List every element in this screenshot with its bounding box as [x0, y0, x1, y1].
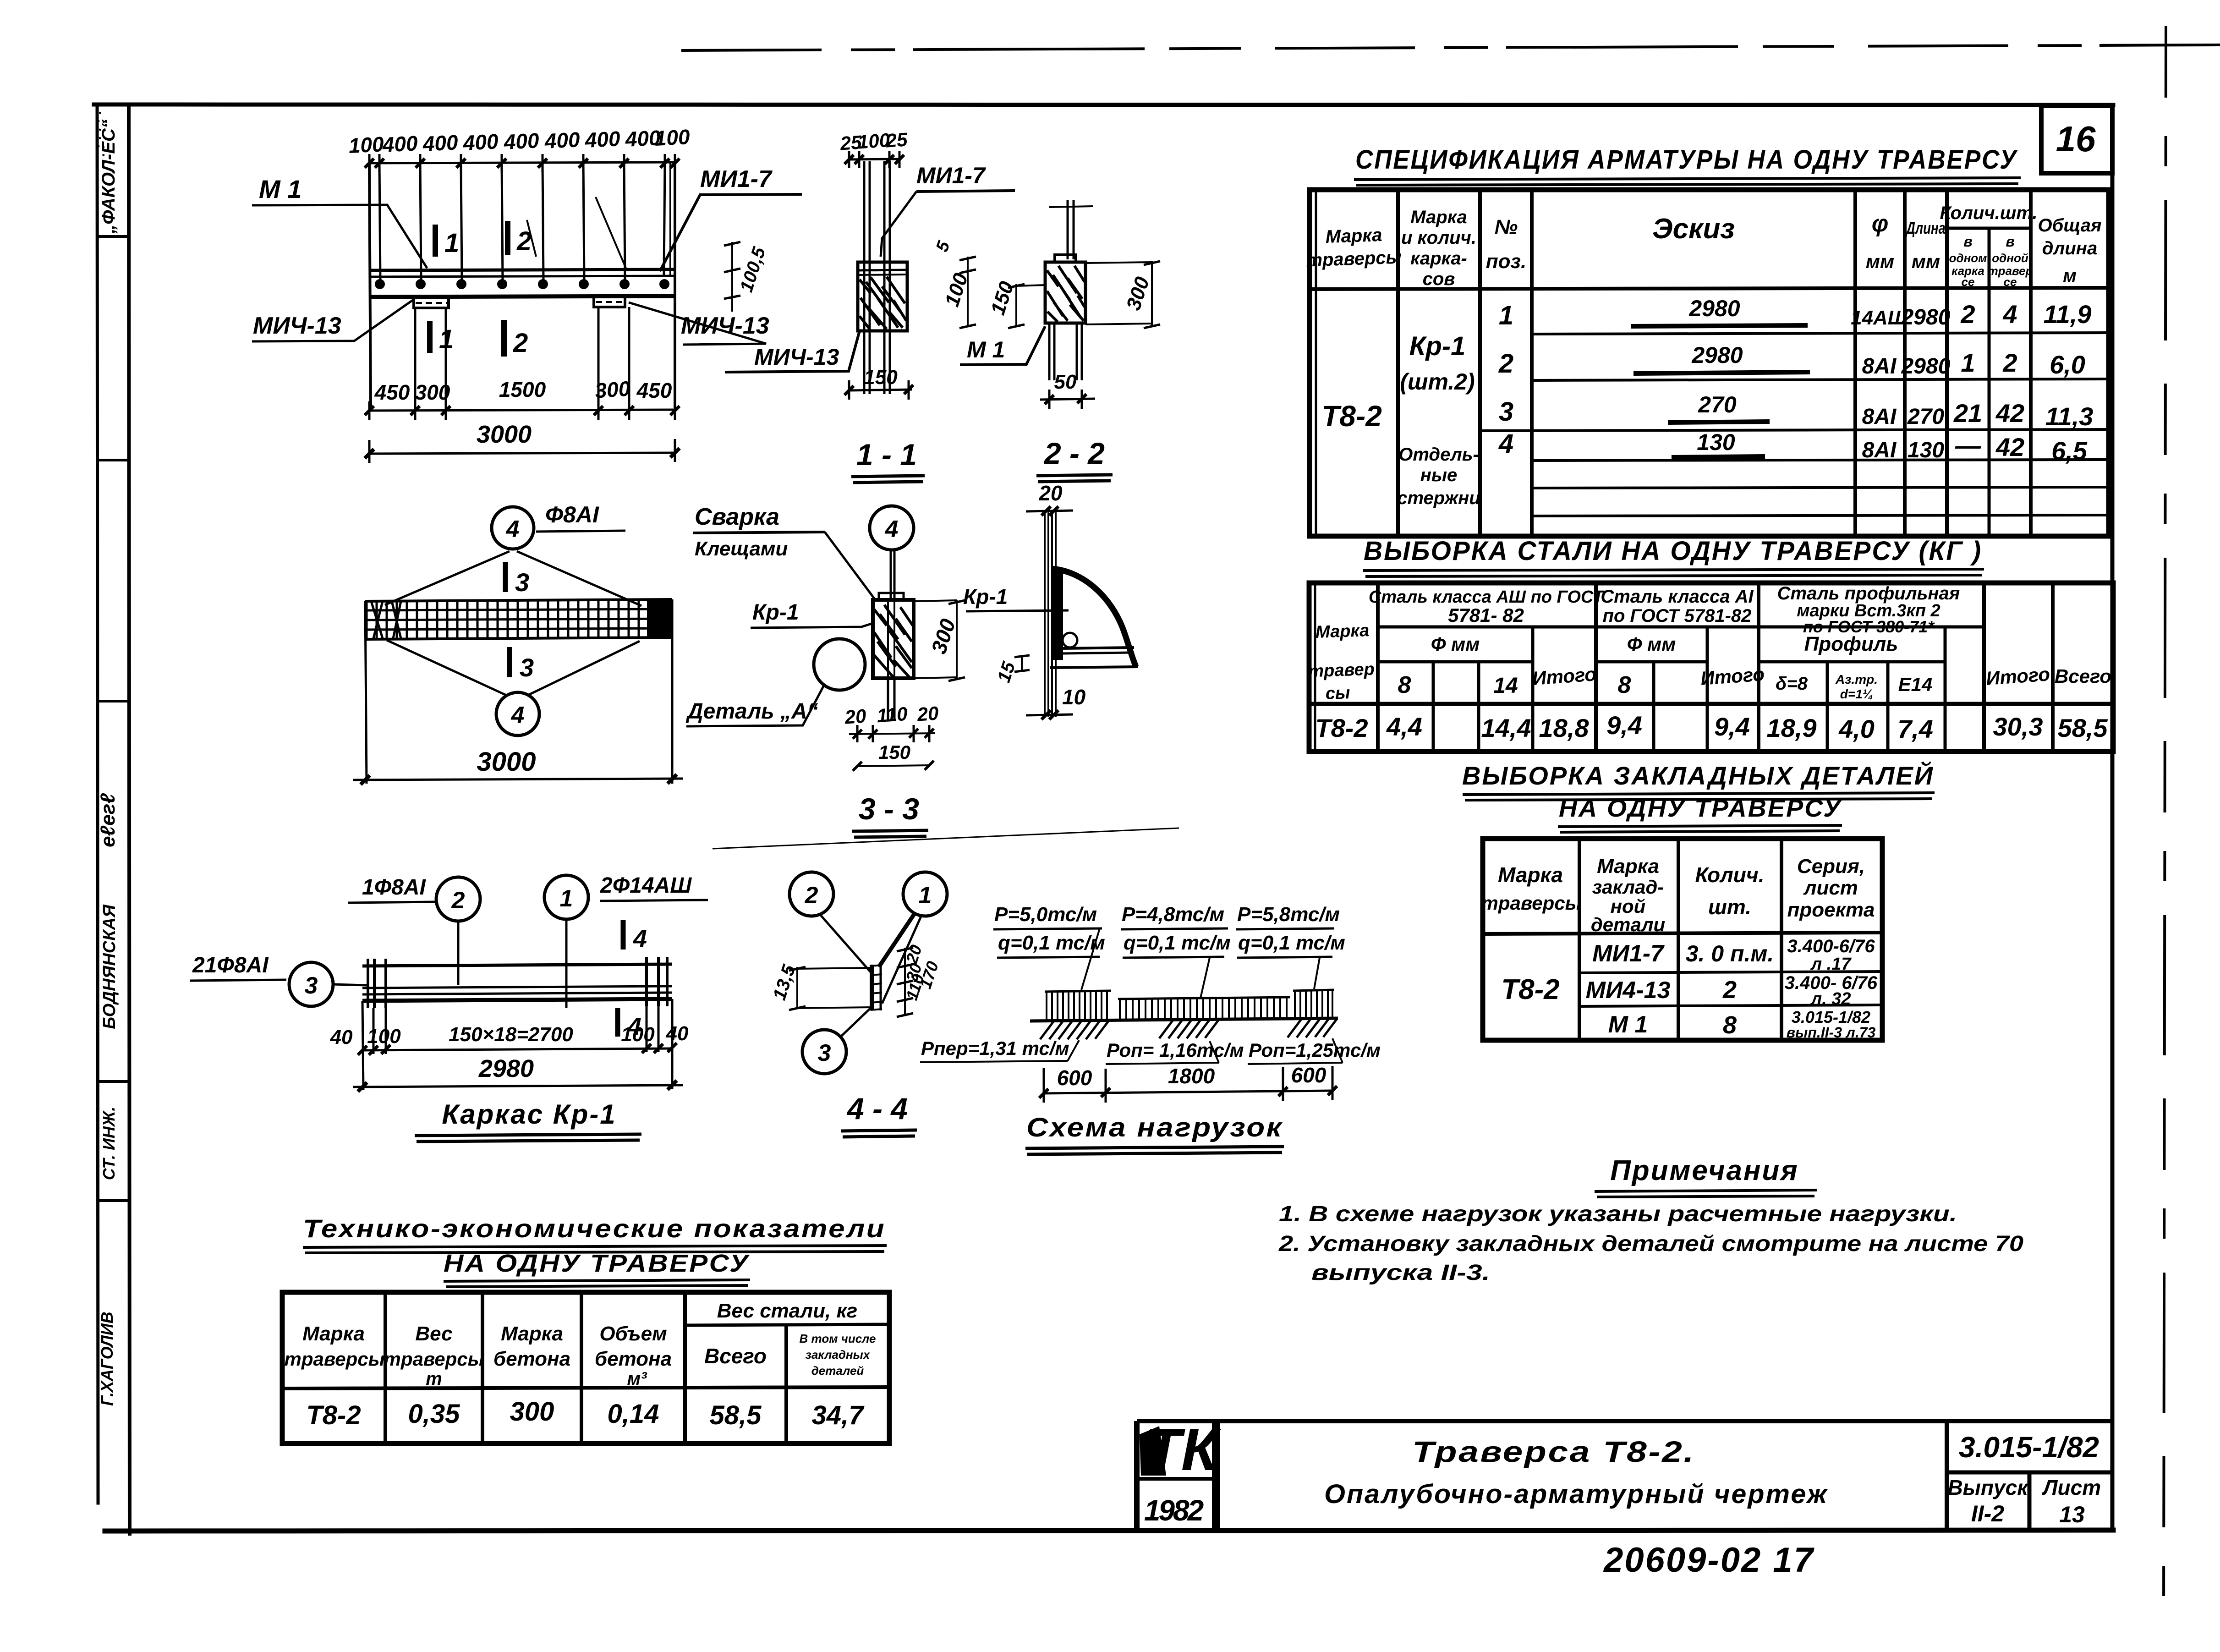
- svg-text:шт.: шт.: [1708, 895, 1751, 919]
- svg-text:длина: длина: [2042, 238, 2097, 258]
- svg-text:8: 8: [1398, 672, 1411, 698]
- svg-text:закладных: закладных: [806, 1348, 871, 1361]
- svg-text:4,4: 4,4: [1386, 712, 1422, 741]
- svg-text:II-2: II-2: [1971, 1501, 2004, 1526]
- frame left sheet edge line: [97, 104, 98, 1503]
- SPEC TABLE title: [1354, 145, 2021, 185]
- svg-text:270: 270: [1907, 405, 1944, 429]
- svg-text:4: 4: [633, 925, 647, 952]
- svg-text:400: 400: [381, 131, 418, 157]
- svg-text:2980: 2980: [1901, 305, 1951, 329]
- svg-text:Отдель-: Отдель-: [1398, 445, 1479, 465]
- TK logo: [1140, 1426, 1166, 1476]
- kr1 flag 4 upper: [623, 920, 647, 952]
- 3-3 title: [852, 792, 928, 837]
- svg-text:траверсы: траверсы: [1481, 892, 1582, 914]
- svg-text:Т8-2: Т8-2: [1501, 974, 1559, 1005]
- svg-text:2: 2: [1722, 976, 1737, 1004]
- svg-text:42: 42: [1995, 433, 2024, 461]
- svg-text:Серия,: Серия,: [1797, 855, 1865, 878]
- svg-text:Ε14: Ε14: [1898, 674, 1933, 695]
- svg-text:600: 600: [1057, 1066, 1092, 1090]
- svg-text:40: 40: [330, 1026, 353, 1048]
- detail A label: [685, 684, 825, 726]
- TEP TABLE grid: [282, 1292, 889, 1443]
- svg-text:М 1: М 1: [259, 175, 301, 203]
- svg-text:18,8: 18,8: [1539, 713, 1590, 742]
- svg-text:МИЧ-13: МИЧ-13: [681, 313, 769, 339]
- svg-text:150: 150: [878, 741, 910, 763]
- svg-text:2Ф14АШ: 2Ф14АШ: [600, 873, 692, 898]
- svg-text:Примечания: Примечания: [1610, 1155, 1799, 1186]
- STEEL TABLE grid: [1309, 583, 2113, 752]
- detail A dim 10: [1026, 685, 1086, 719]
- svg-text:еℓегℓ: еℓегℓ: [97, 793, 119, 847]
- svg-text:2: 2: [2002, 348, 2017, 377]
- svg-text:Г.ХАГОЛИВ: Г.ХАГОЛИВ: [98, 1312, 116, 1406]
- section 2-2 right dim 300: [1085, 261, 1160, 328]
- svg-text:Сталь класса АI: Сталь класса АI: [1601, 587, 1754, 607]
- kr1 circle 1 + label 2F14ASH: [544, 873, 708, 990]
- load scheme title: [1025, 1113, 1284, 1154]
- 3-3 label Kr-1: [751, 600, 873, 628]
- kr1 label 21F8AI + circle 3: [190, 953, 367, 1006]
- beam end verticals: [369, 163, 371, 408]
- svg-text:2: 2: [1960, 300, 1975, 329]
- svg-text:4,0: 4,0: [1838, 714, 1875, 743]
- svg-text:2 - 2: 2 - 2: [1043, 436, 1105, 470]
- svg-text:. . : · · : ·: . . : · · : ·: [93, 111, 108, 165]
- beam top dim line: [369, 162, 676, 163]
- svg-text:Кр-1: Кр-1: [1409, 331, 1466, 361]
- svg-text:бетона: бетона: [493, 1348, 570, 1370]
- svg-text:Всего: Всего: [704, 1344, 767, 1368]
- svg-text:МИ4-13: МИ4-13: [1586, 977, 1671, 1004]
- svg-text:Лист: Лист: [2042, 1476, 2101, 1499]
- beam dim texts top: [348, 125, 691, 158]
- svg-text:одном: одном: [1949, 251, 1987, 265]
- svg-text:в: в: [1963, 233, 1972, 250]
- svg-text:Рпер=1,31 тс/м: Рпер=1,31 тс/м: [921, 1037, 1069, 1059]
- kr1 title: [415, 1099, 641, 1142]
- 3-3 bottom dims: [844, 702, 939, 771]
- 4-4 circle 2: [789, 872, 873, 975]
- 3-3 block: [873, 593, 914, 720]
- EMBED TABLE title: [1462, 761, 1935, 832]
- beam bottom dim texts 1: [374, 376, 672, 404]
- svg-text:Деталь „А“: Деталь „А“: [685, 699, 818, 724]
- svg-text:3: 3: [1499, 397, 1513, 427]
- svg-text:1Ф8АI: 1Ф8АI: [362, 875, 427, 900]
- detail A hook: [1052, 569, 1136, 667]
- section 1-1 label MI1-7: [881, 163, 1015, 257]
- BEAM ELEVATION: [365, 154, 680, 408]
- M1 plates: [414, 297, 629, 409]
- kr1 dim texts 1: [330, 1022, 689, 1048]
- section 1-1 title: [851, 438, 925, 483]
- svg-text:Кр-1: Кр-1: [752, 600, 799, 625]
- svg-text:Профиль: Профиль: [1804, 633, 1898, 655]
- svg-text:3.400-6/76: 3.400-6/76: [1787, 936, 1875, 956]
- detail A label Kr-1: [963, 585, 1069, 611]
- svg-text:14АШ: 14АШ: [1851, 307, 1908, 329]
- EMBED TABLE grid: [1483, 839, 1882, 1040]
- svg-text:20: 20: [844, 705, 867, 728]
- svg-text:сы: сы: [1325, 683, 1350, 703]
- kr1 dim line 1: [358, 1043, 677, 1055]
- svg-text:Эскиз: Эскиз: [1652, 213, 1735, 245]
- svg-text:2980: 2980: [478, 1055, 534, 1082]
- svg-text:поз.: поз.: [1486, 250, 1526, 273]
- kr1 flag 4 lower: [618, 1008, 641, 1040]
- svg-text:40: 40: [666, 1022, 689, 1045]
- svg-text:травер: травер: [1308, 659, 1375, 681]
- net dim 3000: [353, 747, 683, 785]
- svg-text:в: в: [2006, 233, 2014, 250]
- svg-text:Колич.: Колич.: [1695, 863, 1765, 887]
- svg-text:400: 400: [503, 128, 540, 154]
- svg-text:9,4: 9,4: [1714, 712, 1750, 741]
- section 1-1 dim texts: [839, 128, 909, 154]
- svg-text:100: 100: [348, 132, 384, 158]
- load dim line: [1039, 1063, 1337, 1103]
- load beam line: [1030, 1018, 1338, 1021]
- svg-text:2: 2: [1498, 349, 1513, 379]
- svg-text:Роп= 1,16тс/м: Роп= 1,16тс/м: [1107, 1039, 1244, 1061]
- sheet right dashed edge: [2164, 27, 2166, 1622]
- svg-text:25: 25: [885, 128, 909, 151]
- svg-text:1: 1: [1499, 301, 1513, 330]
- svg-text:—: —: [1955, 431, 1981, 460]
- NOTES: [1278, 1155, 2024, 1285]
- svg-text:МИ1-7: МИ1-7: [916, 163, 986, 188]
- svg-text:БОДНЯНСКАЯ: БОДНЯНСКАЯ: [100, 904, 119, 1029]
- svg-text:выпуска II-3.: выпуска II-3.: [1311, 1261, 1490, 1285]
- svg-text:Р=5,0тс/м: Р=5,0тс/м: [994, 903, 1097, 926]
- svg-text:4: 4: [506, 516, 520, 543]
- load reaction labels: [921, 1037, 1381, 1061]
- 4-4 title: [841, 1092, 917, 1137]
- svg-text:Клещами: Клещами: [695, 538, 788, 560]
- frame left inner line: [129, 104, 130, 1534]
- svg-text:3 - 3: 3 - 3: [859, 792, 919, 826]
- svg-text:ВЫБОРКА ЗАКЛАДНЫХ ДЕТАЛЕЙ: ВЫБОРКА ЗАКЛАДНЫХ ДЕТАЛЕЙ: [1462, 761, 1934, 790]
- svg-text:В том числе: В том числе: [800, 1332, 876, 1345]
- beam bottom dim line 1: [365, 401, 680, 420]
- svg-text:2980: 2980: [1901, 354, 1951, 379]
- svg-text:л .17: л .17: [1810, 955, 1852, 974]
- TEP TABLE data: [306, 1397, 865, 1430]
- label MI1-7 top right: [596, 166, 802, 271]
- svg-text:3.015-1/82: 3.015-1/82: [1792, 1008, 1870, 1026]
- svg-text:Итого: Итого: [1532, 663, 1597, 689]
- detail A bar: [1045, 512, 1056, 717]
- label MICH-13 left: [252, 299, 415, 341]
- net flag 3 upper: [505, 562, 529, 597]
- load comb 1: [1045, 991, 1111, 1020]
- svg-text:траверсы: траверсы: [285, 1348, 385, 1370]
- svg-text:Траверса Т8-2.: Траверса Т8-2.: [1412, 1435, 1695, 1468]
- svg-text:заклад-: заклад-: [1592, 876, 1664, 898]
- svg-text:4: 4: [885, 516, 899, 543]
- svg-text:8АI: 8АI: [1862, 405, 1897, 429]
- svg-text:270: 270: [1698, 392, 1737, 417]
- EMBED TABLE data: [1501, 936, 1878, 1041]
- svg-text:2: 2: [513, 328, 528, 358]
- beam top dim arrows: [365, 159, 680, 168]
- svg-text:9,4: 9,4: [1606, 711, 1642, 740]
- svg-text:400: 400: [584, 126, 621, 152]
- svg-text:150×18=2700: 150×18=2700: [449, 1023, 573, 1046]
- WELD LABEL: [693, 504, 874, 598]
- net flag 3 lower: [510, 647, 534, 682]
- svg-text:1: 1: [919, 882, 932, 909]
- svg-text:одной: одной: [1992, 251, 2028, 265]
- svg-text:мм: мм: [1912, 251, 1940, 272]
- svg-text:1. В схеме нагрузок указаны: 1. В схеме нагрузок указаны расчетные на…: [1279, 1202, 1957, 1226]
- svg-text:Марка: Марка: [501, 1323, 563, 1345]
- svg-text:Марка: Марка: [302, 1323, 365, 1345]
- SECTION 1-1: [844, 151, 904, 394]
- svg-text:Сварка: Сварка: [695, 504, 779, 530]
- svg-text:0,35: 0,35: [408, 1399, 460, 1429]
- svg-text:Объем: Объем: [599, 1323, 667, 1345]
- detail A dim 15: [994, 655, 1030, 685]
- svg-text:100: 100: [621, 1023, 655, 1046]
- svg-text:3: 3: [515, 568, 529, 597]
- SECTION 2-2: [1049, 200, 1093, 259]
- svg-text:Итого: Итого: [1700, 663, 1765, 689]
- net band: [365, 599, 672, 639]
- load comb 3: [1293, 990, 1334, 1018]
- detail A plate: [1051, 568, 1063, 660]
- section flags lower: [430, 320, 528, 358]
- beam right small dim: [724, 242, 770, 312]
- section 2-2 bottom dim 50: [1040, 371, 1095, 409]
- svg-text:10: 10: [1062, 685, 1086, 709]
- STEEL TABLE header texts: [1308, 583, 2111, 703]
- net lower diagonals: [387, 640, 640, 696]
- svg-text:600: 600: [1291, 1063, 1327, 1087]
- svg-text:20: 20: [1038, 481, 1063, 505]
- label M1: [252, 175, 427, 268]
- svg-text:М 1: М 1: [1608, 1011, 1648, 1038]
- svg-text:Т8-2: Т8-2: [1321, 400, 1382, 433]
- label MICH-13 right: [629, 302, 769, 345]
- svg-text:3: 3: [520, 653, 534, 682]
- svg-text:100: 100: [654, 125, 691, 150]
- svg-text:траверсы: траверсы: [1306, 247, 1402, 270]
- svg-text:по ГОСТ 5781-82: по ГОСТ 5781-82: [1603, 606, 1752, 626]
- section 1-1 right dim: [932, 238, 976, 328]
- svg-text:и колич.: и колич.: [1401, 228, 1476, 248]
- load supports hatch: [1040, 1019, 1337, 1039]
- svg-text:Колич.шт.: Колич.шт.: [1940, 203, 2038, 223]
- svg-text:вып.II-3 л.73: вып.II-3 л.73: [1787, 1024, 1876, 1041]
- svg-text:3000: 3000: [477, 421, 532, 448]
- TITLE BLOCK: [1137, 1421, 2113, 1530]
- svg-text:т: т: [426, 1369, 442, 1389]
- svg-text:№: №: [1495, 216, 1518, 238]
- svg-text:Марка: Марка: [1325, 225, 1382, 247]
- svg-text:Каркас Кр-1: Каркас Кр-1: [442, 1099, 616, 1130]
- svg-text:13: 13: [2059, 1502, 2085, 1527]
- frame bottom line: [105, 1530, 2113, 1531]
- svg-text:450: 450: [636, 379, 672, 402]
- section 2-2 title: [1036, 436, 1113, 482]
- detail A plate lines: [1050, 633, 1138, 668]
- svg-text:58,5: 58,5: [2058, 713, 2108, 742]
- svg-text:Выпуск: Выпуск: [1947, 1476, 2029, 1499]
- SPEC TABLE data: [1321, 296, 2093, 508]
- svg-text:q=0,1 тс/м: q=0,1 тс/м: [1124, 932, 1231, 954]
- svg-text:8: 8: [1723, 1011, 1737, 1039]
- svg-text:Всего: Всего: [2055, 665, 2111, 687]
- svg-text:Сталь класса АШ по ГОСТ: Сталь класса АШ по ГОСТ: [1369, 587, 1605, 607]
- svg-text:20609-02 17: 20609-02 17: [1603, 1541, 1815, 1580]
- svg-text:СТ. ИНЖ.: СТ. ИНЖ.: [99, 1107, 118, 1180]
- svg-text:МИЧ-13: МИЧ-13: [754, 344, 839, 370]
- svg-text:Ф мм: Ф мм: [1627, 633, 1676, 655]
- section 2-2 left dim 150: [987, 279, 1045, 328]
- svg-text:СПЕЦИФИКАЦИЯ АРМАТУРЫ НА О: СПЕЦИФИКАЦИЯ АРМАТУРЫ НА ОДНУ ТРАВЕРСУ: [1355, 145, 2018, 175]
- svg-text:8: 8: [1618, 672, 1631, 698]
- svg-text:траверсы: траверсы: [384, 1348, 484, 1370]
- svg-text:Схема нагрузок: Схема нагрузок: [1026, 1113, 1283, 1142]
- svg-text:2980: 2980: [1691, 342, 1743, 368]
- svg-text:Сталь профильная: Сталь профильная: [1777, 583, 1960, 604]
- svg-text:0,14: 0,14: [608, 1399, 659, 1429]
- svg-text:3.015-1/82: 3.015-1/82: [1959, 1431, 2099, 1464]
- load comb 2: [1118, 997, 1290, 1020]
- beam grid verticals: [379, 163, 665, 280]
- 3-3 circle 4: [870, 506, 914, 550]
- svg-text:Ф мм: Ф мм: [1431, 633, 1480, 655]
- svg-text:1: 1: [439, 324, 454, 354]
- svg-text:16: 16: [2056, 119, 2096, 159]
- 4-4 circle 3: [802, 1006, 873, 1074]
- SPEC TABLE header texts: [1306, 203, 2102, 289]
- load labels group 3: [1236, 903, 1345, 989]
- net label F8AI: [536, 502, 625, 532]
- svg-text:450: 450: [374, 380, 410, 404]
- section 2-2 block: [1045, 255, 1085, 323]
- svg-text:м: м: [2063, 266, 2077, 286]
- svg-text:100: 100: [367, 1025, 401, 1048]
- svg-text:Марка: Марка: [1315, 621, 1370, 642]
- svg-text:НА ОДНУ ТРАВЕРСУ: НА ОДНУ ТРАВЕРСУ: [1559, 795, 1842, 822]
- kr1 dim 2980: [353, 1055, 683, 1092]
- svg-text:1800: 1800: [1168, 1064, 1215, 1088]
- svg-text:се: се: [1962, 275, 1975, 289]
- svg-text:2. Установку закладных детал: 2. Установку закладных деталей смотрите …: [1278, 1232, 2024, 1256]
- svg-text:л. 32: л. 32: [1810, 989, 1851, 1009]
- svg-text:НА ОДНУ ТРАВЕРСУ: НА ОДНУ ТРАВЕРСУ: [444, 1250, 750, 1277]
- svg-text:300: 300: [510, 1397, 554, 1427]
- detail A top dim 20: [1026, 510, 1073, 511]
- svg-text:карка-: карка-: [1410, 248, 1467, 269]
- net top diagonals: [385, 551, 641, 606]
- svg-text:2: 2: [805, 882, 818, 909]
- SPEC sketch lines: [1631, 325, 1810, 457]
- frame right line: [2110, 105, 2115, 1530]
- svg-text:58,5: 58,5: [710, 1400, 762, 1430]
- EMBED TABLE header texts: [1481, 855, 1875, 935]
- svg-text:400: 400: [422, 130, 459, 156]
- svg-text:14,4: 14,4: [1481, 713, 1531, 742]
- svg-text:ные: ные: [1420, 465, 1458, 485]
- net bottom circle 4: [496, 692, 539, 735]
- 4-4 circle 1: [879, 872, 947, 1004]
- svg-text:20: 20: [916, 702, 939, 725]
- svg-text:30,3: 30,3: [1993, 712, 2043, 741]
- svg-text:d=1¼: d=1¼: [1840, 687, 1873, 701]
- stray pencil line: [713, 828, 1179, 849]
- svg-text:3000: 3000: [477, 747, 536, 777]
- svg-text:8АI: 8АI: [1862, 354, 1897, 379]
- svg-text:стержни: стержни: [1397, 488, 1480, 508]
- svg-text:Опалубочно-арматурный чертеж: Опалубочно-арматурный чертеж: [1324, 1479, 1828, 1509]
- svg-text:11,3: 11,3: [2045, 402, 2094, 431]
- svg-text:Вес: Вес: [415, 1323, 452, 1345]
- SPEC TABLE grid: [1310, 190, 2109, 536]
- svg-text:400: 400: [462, 129, 499, 155]
- svg-text:7,4: 7,4: [1897, 714, 1933, 743]
- DETAIL A: [1026, 506, 1073, 516]
- svg-text:Р=5,8тс/м: Р=5,8тс/м: [1237, 903, 1340, 926]
- detail A callout circle: [814, 639, 865, 690]
- svg-text:3: 3: [305, 972, 318, 999]
- svg-text:1: 1: [560, 885, 573, 912]
- svg-text:21Ф8АI: 21Ф8АI: [192, 953, 269, 977]
- load labels group 2: [1121, 903, 1231, 998]
- svg-text:Технико-экономические показат: Технико-экономические показатели: [303, 1214, 886, 1243]
- svg-text:50: 50: [1054, 371, 1077, 393]
- svg-text:q=0,1 тс/м: q=0,1 тс/м: [1238, 932, 1345, 954]
- svg-text:МИ1-7: МИ1-7: [1592, 940, 1665, 967]
- svg-text:лист: лист: [1803, 877, 1858, 899]
- STEEL TABLE title: [1363, 536, 1984, 576]
- svg-text:400: 400: [543, 127, 581, 153]
- svg-text:Аз.тр.: Аз.тр.: [1835, 672, 1878, 686]
- svg-text:деталей: деталей: [811, 1364, 864, 1378]
- section 1-1 block: [858, 262, 907, 331]
- svg-text:мм: мм: [1866, 251, 1894, 272]
- svg-text:δ=8: δ=8: [1776, 674, 1808, 694]
- svg-text:42: 42: [1995, 399, 2024, 428]
- svg-text:3: 3: [818, 1040, 831, 1066]
- svg-text:150: 150: [864, 366, 898, 389]
- svg-text:110: 110: [876, 703, 908, 727]
- 3-3 right dim 300: [914, 600, 965, 681]
- svg-text:11,9: 11,9: [2044, 300, 2092, 329]
- svg-text:300: 300: [594, 376, 631, 402]
- sheet top dashed edge: [683, 45, 2220, 50]
- kr1 label 1F8AI + circle 2: [348, 875, 480, 985]
- svg-text:2: 2: [451, 887, 465, 914]
- svg-text:Марка: Марка: [1597, 855, 1659, 878]
- svg-text:М 1: М 1: [967, 337, 1005, 362]
- svg-text:ТК: ТК: [1145, 1416, 1221, 1483]
- STEEL TABLE data: [1315, 711, 2108, 743]
- 3-3 leader from circle: [891, 550, 894, 598]
- svg-text:1 - 1: 1 - 1: [856, 438, 917, 472]
- svg-text:21: 21: [1953, 399, 1982, 428]
- svg-text:6,5: 6,5: [2051, 436, 2088, 465]
- svg-text:детали: детали: [1591, 914, 1665, 935]
- svg-text:ВЫБОРКА СТАЛИ НА ОДНУ ТРАВ: ВЫБОРКА СТАЛИ НА ОДНУ ТРАВЕРСУ (КГ ): [1364, 536, 1982, 566]
- section flags upper: [435, 220, 536, 258]
